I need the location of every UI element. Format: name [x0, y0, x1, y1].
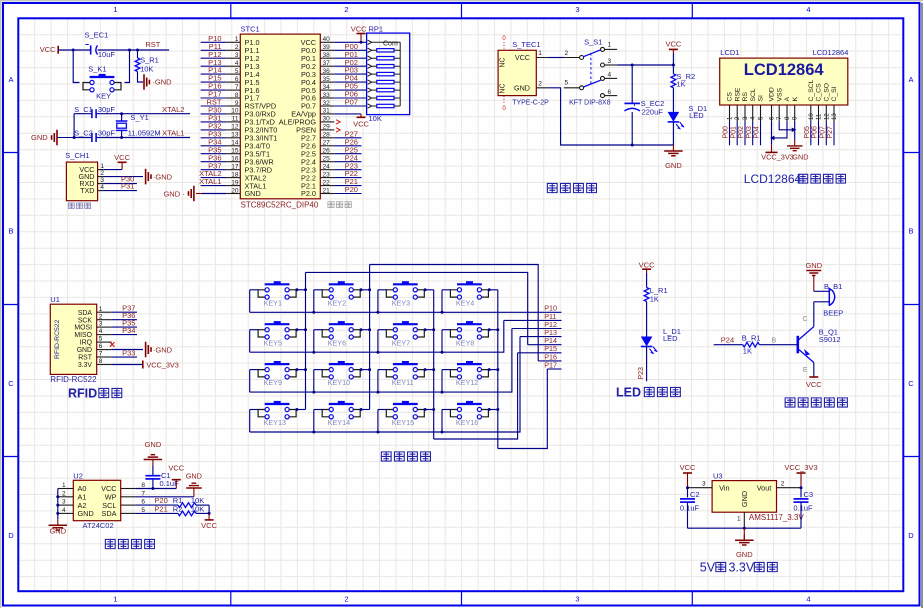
svg-text:30pF: 30pF [98, 105, 116, 114]
svg-text:P01: P01 [730, 126, 737, 139]
junction dots crystal [73, 112, 124, 139]
svg-text:P00: P00 [723, 126, 730, 139]
value 10K (RP1) [369, 114, 382, 123]
svg-text:4: 4 [608, 71, 612, 78]
resistor B_R1 [743, 342, 798, 347]
svg-text:D: D [908, 531, 914, 540]
label AT24C02 [83, 521, 114, 530]
svg-text:RP1: RP1 [369, 25, 384, 34]
svg-text:KEY6: KEY6 [328, 338, 346, 347]
label S_S1 [584, 38, 602, 47]
key KEY2 [322, 281, 360, 299]
svg-text:S_Y1: S_Y1 [130, 113, 148, 122]
svg-text:A: A [8, 75, 13, 84]
svg-text:C_SCL: C_SCL [808, 79, 815, 101]
svg-text:RS: RS [742, 92, 749, 102]
svg-text:B: B [908, 227, 913, 236]
wire VCC to R2 [672, 54, 674, 74]
svg-text:E: E [803, 367, 808, 374]
svg-text:KEY2: KEY2 [328, 298, 346, 307]
svg-text:S_S1: S_S1 [584, 38, 602, 47]
ground (crystal) [31, 130, 74, 146]
svg-text:11.0592M: 11.0592M [128, 129, 161, 138]
svg-text:CS: CS [727, 92, 734, 102]
wire XTAL2 net [74, 113, 190, 115]
svg-text:C_SI: C_SI [831, 86, 838, 101]
svg-text:1K: 1K [650, 295, 659, 304]
svg-text:KEY15: KEY15 [392, 418, 414, 427]
wire lcd VDD [771, 122, 773, 145]
svg-text:VCC: VCC [351, 25, 367, 34]
wire KEY4 left [442, 290, 450, 313]
svg-text:SDA: SDA [101, 509, 116, 518]
svg-text:9: 9 [235, 100, 239, 107]
power port VCC (pullup) [201, 513, 217, 530]
wire KEY15 right [424, 408, 434, 411]
svg-text:VCC: VCC [40, 45, 56, 54]
svg-text:12: 12 [231, 124, 239, 131]
capacitor C3 [794, 486, 809, 528]
wire led [646, 302, 648, 337]
resistor pack RP1 body [367, 33, 410, 115]
power port VCC (EA) [353, 114, 369, 129]
svg-text:39: 39 [323, 44, 331, 51]
wire KEY6 right [360, 328, 370, 331]
svg-text:P34: P34 [122, 326, 135, 335]
svg-text:18: 18 [231, 171, 239, 178]
svg-text:KEY1: KEY1 [264, 298, 282, 307]
power port VCC_3V3 (reg) [784, 463, 817, 488]
svg-text:VCC: VCC [353, 120, 369, 129]
svg-text:STC89C52RC_DIP40: STC89C52RC_DIP40 [241, 201, 319, 210]
svg-text:P02: P02 [738, 126, 745, 139]
svg-text:B: B [8, 227, 13, 236]
svg-text:P07: P07 [820, 126, 827, 139]
svg-text:XTAL1: XTAL1 [199, 177, 221, 186]
svg-text:LCD12864: LCD12864 [744, 61, 825, 79]
svg-text:3: 3 [702, 480, 706, 487]
svg-text:8: 8 [235, 92, 239, 99]
wire KEY14 right [360, 408, 370, 411]
no-connect pin29 [336, 128, 340, 132]
ground (lcd) [787, 140, 809, 162]
label B_Q1 [819, 328, 841, 344]
svg-text:31: 31 [323, 108, 331, 115]
junction dots reset [72, 49, 139, 52]
ground (S_CH1) [146, 169, 173, 185]
pin letters CEB [772, 316, 808, 374]
svg-text:P31: P31 [121, 182, 134, 191]
label KEY16 [456, 418, 478, 427]
svg-text:VCC: VCC [665, 40, 681, 49]
svg-text:Com: Com [383, 41, 398, 48]
resistor L_R1 [644, 273, 649, 302]
svg-text:30pF: 30pF [98, 129, 116, 138]
label LCD1 [720, 48, 739, 57]
ground (eeprom top) [144, 440, 163, 466]
svg-text:GND: GND [49, 527, 66, 536]
svg-text:S_C2: S_C2 [74, 129, 93, 138]
wire top bus A [370, 265, 539, 361]
switch S_S1 [564, 47, 617, 97]
svg-text:7: 7 [99, 351, 103, 358]
label KEY8 [456, 338, 474, 347]
key KEY6 [322, 321, 360, 339]
key KEY8 [450, 321, 488, 339]
svg-text:C: C [8, 379, 14, 388]
resistor S_R2 [671, 74, 676, 112]
label MCU comment [328, 202, 351, 208]
svg-text:XTAL1: XTAL1 [162, 129, 184, 138]
svg-text:P03: P03 [746, 126, 753, 139]
key KEY11 [386, 361, 424, 379]
wire KEY8 left [442, 330, 450, 353]
label S_TEC1 [512, 40, 540, 49]
rfid net wires P37-P34 [112, 304, 137, 335]
svg-text:3.3V: 3.3V [78, 362, 93, 369]
lcd pins [727, 79, 839, 122]
label KEY14 [328, 418, 350, 427]
svg-text:14: 14 [231, 140, 239, 147]
wire column 2 [369, 265, 371, 410]
power port VCC (eeprom) [168, 463, 184, 488]
svg-text:11: 11 [817, 113, 823, 120]
svg-text:C3: C3 [804, 490, 814, 499]
svg-text:P27: P27 [827, 126, 834, 139]
svg-text:17: 17 [231, 163, 239, 170]
ground (reg) [735, 528, 754, 559]
svg-text:LED: LED [616, 386, 641, 400]
svg-text:B: B [772, 338, 777, 345]
mcu right P2 wires [334, 129, 361, 194]
wire eeprom SCL [136, 496, 178, 505]
led L_D1 [641, 337, 657, 354]
svg-text:P21: P21 [154, 504, 167, 513]
svg-text:P2.0: P2.0 [301, 189, 316, 198]
svg-text:KEY11: KEY11 [392, 378, 414, 387]
svg-text:1: 1 [62, 482, 66, 489]
svg-text:VCC: VCC [168, 463, 184, 472]
label KEY1 [264, 298, 282, 307]
junction dots columns [304, 288, 499, 411]
connector S_TEC1 body [498, 50, 536, 95]
svg-text:3: 3 [575, 5, 579, 14]
svg-text:32: 32 [323, 100, 331, 107]
mcu pins and names [226, 36, 334, 198]
key KEY16 [450, 401, 488, 419]
wire pin31 EA [334, 113, 361, 115]
wire CH1 pin4 P31 [105, 182, 137, 191]
capacitor S_C2 [92, 133, 96, 142]
label B_B1 [824, 282, 842, 291]
svg-text:0.1uF: 0.1uF [680, 504, 700, 513]
wire KEY12 left [442, 370, 450, 393]
wire row bus 3 [250, 329, 512, 393]
svg-text:4: 4 [806, 5, 810, 14]
svg-text:3: 3 [100, 177, 104, 184]
svg-text:36: 36 [323, 68, 331, 75]
svg-text:XTAL2: XTAL2 [162, 105, 184, 114]
wire KEY11 right [424, 368, 434, 371]
wire lcd A to VDD [770, 122, 787, 140]
no-connect IRQ [110, 342, 115, 347]
svg-text:NC: NC [500, 83, 507, 93]
ground (buzzer) [805, 261, 822, 291]
svg-text:GND: GND [736, 550, 753, 559]
svg-text:GND: GND [77, 347, 92, 354]
svg-text:VSS: VSS [776, 87, 783, 101]
svg-text:TYPE-C-2P: TYPE-C-2P [512, 99, 549, 106]
value 11.0592M [128, 129, 161, 138]
wire CH1 pin1 VCC [105, 153, 131, 170]
power port VCC (reset) [40, 45, 58, 54]
label KEY4 [456, 298, 474, 307]
svg-text:10: 10 [231, 108, 239, 115]
wire KEY5 right [295, 328, 305, 331]
label S_CH1 [65, 151, 89, 160]
svg-text:SDA: SDA [78, 310, 93, 317]
svg-text:KEY7: KEY7 [392, 338, 410, 347]
svg-text:4: 4 [235, 60, 239, 67]
svg-text:GND: GND [31, 133, 48, 142]
svg-text:1: 1 [100, 163, 104, 170]
push button S_K1 [83, 74, 121, 92]
label KEY6 [328, 338, 346, 347]
wire KEY12 right [488, 368, 498, 371]
wire KEY5 left [250, 330, 258, 353]
svg-text:29: 29 [323, 124, 331, 131]
svg-text:RFID-RC522: RFID-RC522 [54, 319, 61, 358]
wire KEY3 right [424, 288, 434, 291]
svg-text:24: 24 [323, 163, 331, 170]
svg-text:KEY13: KEY13 [264, 418, 286, 427]
svg-text:U3: U3 [713, 472, 723, 481]
value 10K (S_R1) [140, 64, 153, 73]
svg-text:KEY3: KEY3 [392, 298, 410, 307]
key KEY4 [450, 281, 488, 299]
svg-text:VCC: VCC [114, 153, 130, 162]
svg-text:KFT DIP-8X8: KFT DIP-8X8 [569, 99, 611, 106]
svg-text:GND: GND [245, 189, 261, 198]
svg-text:1: 1 [99, 306, 103, 313]
svg-text:2: 2 [344, 595, 348, 604]
svg-text:5: 5 [565, 80, 569, 87]
eeprom pins [58, 482, 146, 518]
wire row bus 4 [250, 337, 520, 432]
svg-text:23: 23 [323, 171, 331, 178]
label L_D1 [663, 327, 681, 343]
svg-text:Vin: Vin [719, 483, 729, 492]
label RFID-RC522 rotated [54, 319, 61, 358]
svg-text:SCK: SCK [78, 317, 93, 324]
wire KEY14 left [314, 410, 322, 433]
wire KEY8 right [488, 328, 498, 331]
key KEY3 [386, 281, 424, 299]
svg-text:GND: GND [186, 471, 202, 480]
wire reg bottom bus [688, 527, 802, 530]
label STC89C52RC_DIP40 [241, 201, 319, 210]
wire KEY1 left [250, 290, 258, 313]
svg-text:LCD12864: LCD12864 [744, 172, 802, 186]
crystal S_Y1 [116, 114, 128, 138]
svg-text:1K: 1K [676, 79, 685, 88]
svg-text:GND ·: GND · [163, 190, 184, 199]
svg-text:5: 5 [235, 68, 239, 75]
ground (reset) [144, 74, 172, 90]
svg-text:BEEP: BEEP [823, 309, 843, 318]
svg-text:12: 12 [824, 113, 830, 120]
svg-text:KEY: KEY [96, 92, 111, 101]
svg-text:2: 2 [99, 313, 103, 320]
svg-text:4: 4 [62, 507, 66, 514]
svg-text:16: 16 [231, 156, 239, 163]
label KEY9 [264, 378, 282, 387]
label R1 [173, 496, 204, 505]
wire KEY15 left [378, 410, 386, 433]
svg-text:P20: P20 [345, 185, 358, 194]
svg-text:19: 19 [231, 179, 239, 186]
svg-text:26: 26 [323, 148, 331, 155]
svg-text:6: 6 [235, 76, 239, 83]
mcu left net wires [199, 34, 226, 186]
wire TEC2 gnd [548, 88, 673, 145]
wire row bus 1 / P10 [250, 311, 562, 313]
svg-text:D: D [8, 531, 14, 540]
label RFID-RC522 [50, 375, 97, 384]
svg-text:R2: R2 [173, 504, 183, 513]
label U2 [73, 471, 83, 480]
svg-text:·GND: ·GND [153, 172, 173, 181]
wire buzzer to collector [813, 302, 815, 327]
svg-text:P24: P24 [721, 336, 734, 345]
label U3 [713, 472, 723, 481]
svg-text:B_R1: B_R1 [742, 333, 761, 342]
label KEY7 [392, 338, 410, 347]
keypad net wires P10-P17 [504, 304, 562, 370]
wire rfid 3.3V [112, 364, 143, 366]
svg-text:8: 8 [99, 358, 103, 365]
svg-text:KEY8: KEY8 [456, 338, 474, 347]
svg-text:1: 1 [113, 595, 117, 604]
eeprom U2 body [73, 480, 120, 520]
svg-text:S_K1: S_K1 [88, 65, 106, 74]
svg-text:·GND: ·GND [152, 78, 172, 87]
svg-text:10K: 10K [191, 504, 204, 513]
wire bottom bus 1 [434, 353, 518, 439]
svg-text:RFID: RFID [68, 387, 97, 401]
lcd LCD1 body [720, 58, 848, 105]
wire emitter VCC [806, 363, 822, 389]
svg-text:P04: P04 [754, 126, 761, 139]
svg-text:2: 2 [565, 50, 569, 57]
svg-text:GND: GND [740, 491, 749, 507]
wire eeprom VCC [136, 487, 176, 490]
svg-text:U2: U2 [73, 471, 83, 480]
svg-text:2: 2 [344, 5, 348, 14]
label KEY5 [264, 338, 282, 347]
svg-text:21: 21 [323, 187, 331, 194]
power port VCC_3V3 (rfid) [143, 360, 179, 369]
svg-text:25: 25 [323, 156, 331, 163]
pin names TEC [514, 53, 530, 92]
label S_R1 [140, 56, 159, 65]
net label XTAL2 [162, 105, 184, 114]
svg-text:P23: P23 [638, 367, 645, 380]
svg-text:P17: P17 [544, 360, 557, 369]
label KEY13 [264, 418, 286, 427]
mcu pin20 ground wire [163, 186, 226, 202]
svg-text:C_CS: C_CS [816, 83, 823, 102]
label LCD12864 type [813, 48, 849, 57]
svg-text:2: 2 [235, 44, 239, 51]
svg-text:U1: U1 [50, 295, 60, 304]
svg-text:K: K [792, 97, 799, 102]
lcd net wires [723, 122, 835, 145]
label KEY3 [392, 298, 410, 307]
svg-text:NC: NC [500, 57, 507, 67]
svg-text:KEY14: KEY14 [328, 418, 350, 427]
svg-text:S_C1: S_C1 [74, 105, 93, 114]
svg-text:P06: P06 [812, 126, 819, 139]
wire pullup join [208, 505, 211, 515]
wire rfid RST P33 [112, 348, 137, 357]
title buzzer circuit [785, 398, 847, 407]
wire key right [125, 50, 130, 83]
label S_C1 [74, 105, 115, 114]
label BEEP [823, 309, 843, 318]
label KFT DIP-8X8 [569, 99, 611, 106]
svg-text:4: 4 [806, 595, 810, 604]
label C2 [680, 490, 700, 513]
wire column 3 [433, 290, 435, 439]
key KEY12 [450, 361, 488, 379]
wire switch out [617, 64, 675, 67]
title memory module [105, 539, 154, 548]
svg-text:A: A [784, 97, 791, 102]
svg-text:2: 2 [781, 480, 785, 487]
svg-text:GND: GND [78, 509, 94, 518]
ground (power) [664, 145, 683, 170]
pins S_CH1 [79, 163, 105, 195]
capacitor C1 [145, 466, 160, 489]
svg-text:AMS1117_3.3V: AMS1117_3.3V [749, 513, 805, 522]
svg-text:GND: GND [805, 261, 822, 270]
wire key left [73, 50, 79, 83]
resistor R2 [178, 511, 209, 516]
wire KEY1 right [295, 288, 305, 291]
svg-text:VCC_3V3: VCC_3V3 [784, 463, 817, 472]
svg-text:38: 38 [323, 52, 331, 59]
svg-text:2: 2 [100, 170, 104, 177]
label KEY12 [456, 378, 478, 387]
label C1 [160, 471, 180, 488]
label STC1 [241, 25, 260, 34]
wire rfid GND [112, 349, 143, 351]
label RP1 [369, 25, 384, 34]
label S_D1 [688, 104, 707, 120]
label B_R1 [742, 333, 761, 355]
svg-text:0.1uF: 0.1uF [793, 504, 813, 513]
capacitor S_C1 [92, 109, 96, 118]
svg-text:MOSI: MOSI [74, 325, 92, 332]
svg-text:KEY5: KEY5 [264, 338, 282, 347]
net label XTAL1 [162, 129, 184, 138]
wire lcd VSS to K [779, 122, 796, 132]
rfid U1 body [50, 304, 96, 374]
power port VCC_3V3 (lcd) [761, 145, 793, 162]
svg-text:KEY9: KEY9 [264, 378, 282, 387]
value 10uF [98, 50, 116, 59]
